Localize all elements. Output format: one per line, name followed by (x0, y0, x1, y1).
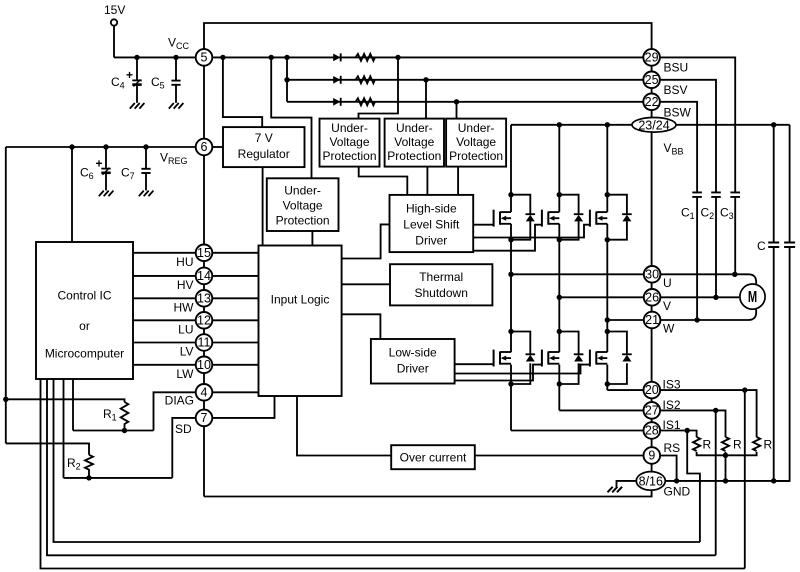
wire VBB rail (511, 124, 632, 126)
wire low-side gate 3 (455, 365, 590, 374)
wire cap C right column (789, 125, 791, 243)
wire high-side gate 1 (473, 224, 493, 226)
box over current (391, 445, 475, 469)
svg-text:SD: SD (175, 422, 192, 436)
wire U into motor (749, 274, 757, 285)
wire cap C left column (773, 125, 775, 243)
svg-text:RS: RS (664, 441, 681, 455)
pin 13 HW (196, 290, 213, 307)
svg-text:Driver: Driver (415, 234, 447, 248)
pin 5 VCC (196, 49, 213, 66)
wire VREG left rail down (5, 147, 7, 443)
node row2 to UVP-B (423, 77, 428, 82)
wire VREG to R1 top (6, 399, 125, 402)
pin 9 RS (644, 447, 661, 464)
wire GND rail (665, 480, 789, 482)
wire sense R bottom row (697, 452, 757, 455)
svg-text:6: 6 (201, 140, 208, 154)
wire input logic to high-side driver (342, 224, 390, 258)
node VCC to UVP (269, 55, 274, 60)
node RS to GND (674, 478, 679, 483)
node W bootstrap C1 (694, 317, 699, 322)
transistor Q4 low-side U MOSFET (494, 350, 511, 367)
wire pin13 to input logic (212, 297, 258, 299)
wire low diode2 top lead (559, 332, 578, 355)
diode D5 freewheel low 2 (574, 354, 584, 361)
ground under C7 (139, 191, 154, 197)
wire diode3 top lead (607, 195, 627, 215)
wire row1 to UVP-A box (359, 57, 399, 118)
transistor Q1 high-side U MOSFET (494, 210, 511, 227)
wire BSU from pin29 to bootstrap cap C3 (660, 57, 735, 192)
node VREG junction C7 (143, 144, 148, 149)
wire low source column 2 to IS2 (558, 365, 560, 411)
transistor Q6 low-side W MOSFET (590, 350, 607, 367)
diode D4 freewheel low 1 (526, 354, 536, 361)
node cap C to GND (771, 478, 776, 483)
resistor R sense 1 (693, 437, 700, 451)
svg-text:Under-: Under- (331, 121, 368, 135)
resistor bootstrap row1 (356, 54, 375, 61)
wire R2 bottom row (64, 477, 173, 479)
wire over current to pin9 RS (475, 455, 644, 457)
svg-text:HU: HU (176, 255, 193, 269)
svg-text:+: + (95, 157, 102, 171)
wire row3 to UVP-C box (456, 102, 458, 119)
node R bottoms to GND (723, 478, 728, 483)
wire high-side drain column 3 (606, 125, 608, 212)
wire pin10 to input logic (212, 364, 258, 366)
diode D3 freewheel high 3 (622, 214, 632, 221)
wire control IC outputs HU (133, 252, 196, 254)
svg-text:7 V: 7 V (255, 131, 273, 145)
wire bootstrap feed down (286, 57, 288, 101)
svg-text:LV: LV (180, 345, 194, 359)
wire pin4 to input logic (212, 391, 258, 393)
node low drain 1 (508, 329, 513, 334)
svg-text:Shutdown: Shutdown (415, 286, 468, 300)
node VCC junction C5 (173, 55, 178, 60)
svg-text:Voltage: Voltage (394, 135, 434, 149)
node diode2 top (557, 192, 562, 197)
wire high-side source column 2 (558, 224, 560, 352)
node low drain 3 (605, 329, 610, 334)
wire pin6 to regulator (212, 146, 223, 148)
pin 11 LV (196, 334, 213, 351)
node IS1 riser (685, 428, 690, 433)
node VCC junction C4 (134, 55, 139, 60)
pin 20 IS3 (644, 382, 661, 399)
capacitor C3 bootstrap (730, 192, 740, 197)
pin 8/16 GND (636, 472, 665, 491)
svg-text:Voltage: Voltage (329, 135, 369, 149)
box input logic (259, 246, 342, 397)
wire bootstrap row 3 (287, 101, 643, 103)
svg-text:Under-: Under- (396, 121, 433, 135)
box under-voltage protection C (BSW) (446, 119, 506, 167)
wire BSW from pin22 to bootstrap cap C1 (660, 102, 697, 192)
wire bootstrap row 2 (287, 79, 643, 81)
svg-text:Level Shift: Level Shift (403, 218, 460, 232)
wire IC bottom edge (204, 490, 652, 496)
ground under C5 (169, 103, 184, 109)
wire IC right edge (651, 66, 653, 72)
node low source 2 (557, 381, 562, 386)
node VREG rail to R1 (3, 397, 8, 402)
wire low diode3 top lead (607, 332, 627, 355)
svg-text:BSV: BSV (664, 83, 688, 97)
wire IC top edge (204, 23, 652, 49)
capacitor C1 bootstrap (692, 192, 702, 197)
box high-side level shift driver (390, 195, 474, 252)
svg-text:26: 26 (645, 290, 659, 304)
wire VREG rail (6, 146, 196, 148)
node row1 to UVP-A (395, 55, 400, 60)
wire control IC outputs LW (133, 364, 196, 366)
pin 27 IS2 (644, 402, 661, 419)
svg-text:IS1: IS1 (663, 418, 681, 432)
svg-text:9: 9 (648, 449, 655, 463)
wire control IC to R1 row riser (72, 379, 74, 431)
pin 28 IS1 (644, 422, 661, 439)
wire IS1 row (511, 430, 644, 432)
svg-text:30: 30 (645, 267, 659, 281)
node V row left (557, 295, 562, 300)
pin 29 BSU (643, 49, 660, 66)
wire control IC outputs LU (133, 319, 196, 321)
transistor Q3 high-side W MOSFET (590, 210, 607, 227)
wire W row (607, 319, 644, 321)
wire pin7 SD to R2 bottom (172, 418, 195, 478)
wire VREG to control IC top (71, 147, 73, 242)
svg-text:Under-: Under- (284, 184, 321, 198)
capacitor C5 (171, 57, 180, 102)
wire low diode2 bottom lead (559, 363, 578, 384)
svg-text:Control IC: Control IC (57, 289, 111, 303)
wire high-side drain column 1 (510, 125, 512, 212)
svg-text:8/16: 8/16 (639, 474, 663, 488)
wire sense R middle to GND rail (725, 452, 727, 481)
box control IC / microcomputer (36, 242, 133, 379)
wire diode1 top lead (511, 195, 530, 215)
svg-text:HW: HW (174, 301, 195, 315)
resistor R1 (DIAG pull-up) (121, 402, 129, 431)
node sense R middle bottom (723, 453, 728, 458)
wire control IC to R2 row riser (63, 379, 65, 478)
svg-text:15: 15 (197, 246, 211, 260)
wire IS2 row (559, 409, 643, 411)
svg-text:LW: LW (176, 367, 194, 381)
wire pin14 to input logic (212, 275, 258, 277)
svg-text:R: R (733, 438, 742, 452)
node diode1 top (508, 192, 513, 197)
wire regulator bottom to input logic (262, 167, 264, 245)
box low-side driver (371, 339, 455, 384)
wire IS1 return rail (54, 379, 700, 542)
pin 23/24 VBB (632, 118, 676, 133)
svg-text:Over current: Over current (400, 451, 467, 465)
wire UVP-A bottom to high-side driver (359, 167, 408, 195)
capacitor C bulk left (768, 243, 779, 248)
svg-text:LU: LU (178, 323, 193, 337)
diode D1 freewheel high 1 (526, 214, 536, 221)
wire IS1 return riser (687, 431, 700, 543)
svg-text:HV: HV (177, 278, 194, 292)
svg-text:Voltage: Voltage (456, 135, 496, 149)
transistor Q2 high-side V MOSFET (542, 210, 559, 227)
resistor R2 (SD pull-up) (85, 455, 93, 478)
wire 15V supply lead (113, 26, 115, 58)
wire VCC feed to under-voltage protection (271, 57, 311, 178)
wire IS2 return riser (715, 410, 717, 555)
svg-text:V: V (663, 299, 671, 313)
node VBB drain2 (557, 122, 562, 127)
svg-text:22: 22 (645, 95, 659, 109)
diode D2 freewheel high 2 (574, 214, 584, 221)
node VBB drain3 (605, 122, 610, 127)
diode bootstrap row1 (333, 53, 341, 61)
wire diode3 bottom lead (607, 221, 627, 240)
wire diode2 top lead (559, 195, 578, 215)
pin 12 LU (196, 312, 213, 329)
wire IS3 return riser (744, 390, 746, 568)
resistor bootstrap row3 (356, 98, 375, 105)
wire U row (511, 273, 644, 275)
pin 7 SD (196, 410, 213, 427)
node source2 (557, 237, 562, 242)
wire W into motor (749, 309, 757, 320)
svg-text:Input Logic: Input Logic (271, 293, 330, 307)
wire IS3 return rail (41, 379, 745, 569)
wire DIAG to R1 bottom (154, 392, 196, 430)
svg-text:IS3: IS3 (663, 378, 681, 392)
wire high-side drain column 2 (558, 125, 560, 212)
motor M (740, 284, 765, 309)
node R2 bottom (86, 475, 91, 480)
wire high-side source column 1 (510, 224, 512, 352)
node W row left (605, 317, 610, 322)
ground symbol at GND pin (608, 487, 623, 493)
svg-text:U: U (663, 276, 672, 290)
wire pin12 to input logic (212, 319, 258, 321)
wire diode2 bottom lead (559, 221, 578, 240)
pin 14 HV (196, 268, 213, 285)
wire low diode3 bottom lead (607, 363, 627, 384)
node diode3 top (605, 192, 610, 197)
capacitor C7 (141, 147, 150, 190)
svg-text:R: R (764, 438, 773, 452)
capacitor C4 (electrolytic) (126, 57, 142, 102)
wire IC left edge (203, 66, 205, 139)
svg-text:or: or (79, 319, 90, 333)
wire IS3 row (607, 389, 643, 391)
wire control IC outputs HW (133, 297, 196, 299)
svg-text:Protection: Protection (387, 149, 441, 163)
diode D6 freewheel low 3 (622, 354, 632, 361)
wire high-side gate 2 (473, 225, 542, 251)
node VCC to regulator (220, 55, 225, 60)
capacitor C bulk right (784, 243, 795, 248)
svg-text:Microcomputer: Microcomputer (45, 347, 124, 361)
ground under C4 (130, 103, 145, 109)
pin 4 DIAG (196, 384, 213, 401)
resistor bootstrap row2 (356, 76, 375, 83)
svg-text:14: 14 (197, 269, 211, 283)
node bootstrap row2 start (284, 77, 289, 82)
svg-text:Driver: Driver (397, 362, 429, 376)
svg-text:Protection: Protection (276, 214, 330, 228)
svg-text:Regulator: Regulator (238, 147, 290, 161)
transistor Q5 low-side V MOSFET (542, 350, 559, 367)
node IS3 riser (742, 387, 747, 392)
svg-text:High-side: High-side (406, 202, 457, 216)
svg-text:W: W (663, 322, 675, 336)
wire pin15 to input logic (212, 252, 258, 254)
svg-text:Protection: Protection (322, 149, 376, 163)
diode bootstrap row3 (333, 98, 341, 106)
node VBB cap C (771, 122, 776, 127)
svg-text:R: R (703, 438, 712, 452)
wire low-side gate 1 (455, 363, 494, 365)
svg-text:11: 11 (198, 336, 211, 350)
box under-voltage protection B (BSV) (385, 119, 444, 167)
box under-voltage protection (VREG) (267, 178, 339, 231)
node VREG to control IC (69, 144, 74, 149)
wire BSV from pin25 to bootstrap cap C2 (660, 80, 716, 192)
wire VCC rail (114, 56, 196, 58)
node low source 1 (508, 381, 513, 386)
svg-text:13: 13 (197, 291, 211, 305)
pin 15 HU (196, 245, 213, 262)
node row3 to UVP-C (454, 99, 459, 104)
wire VREG to R2 top (6, 443, 89, 454)
capacitor C2 bootstrap (711, 192, 721, 197)
node U row left (508, 272, 513, 277)
wire row2 to UVP-B box (425, 80, 427, 119)
ground under C6 (99, 191, 114, 197)
svg-text:GND: GND (664, 485, 691, 499)
svg-text:5: 5 (201, 50, 208, 64)
wire VCC row to pin29 (bootstrap row 1) (212, 56, 643, 58)
svg-text:Thermal: Thermal (419, 270, 463, 284)
svg-text:BSW: BSW (664, 106, 692, 120)
pin 26 V (644, 289, 661, 306)
wire control IC outputs HV (133, 275, 196, 277)
svg-text:21: 21 (645, 313, 659, 327)
wire GND pin lead to ground symbol (617, 481, 637, 487)
pin 10 LW (196, 357, 213, 374)
svg-text:25: 25 (645, 73, 659, 87)
wire VCC feed to 7V regulator (223, 57, 262, 127)
wire high-side source column 3 (606, 224, 608, 352)
node V bootstrap C2 (713, 295, 718, 300)
resistor R sense 3 (753, 437, 760, 451)
wire UVP-C bottom to high-side driver (457, 167, 459, 195)
svg-text:C: C (757, 239, 766, 253)
svg-text:M: M (748, 288, 757, 305)
capacitor C6 (electrolytic) (95, 147, 110, 190)
node source3 (605, 237, 610, 242)
resistor R sense 2 (722, 437, 729, 451)
wire UVP-B bottom to high-side driver (426, 167, 428, 195)
node low source 3 (605, 381, 610, 386)
node U bootstrap C3 (732, 272, 737, 277)
wire low diode1 top lead (511, 332, 530, 355)
node low drain 2 (557, 329, 562, 334)
pin 21 W (644, 312, 661, 329)
svg-text:29: 29 (645, 50, 659, 64)
svg-text:Low-side: Low-side (389, 346, 437, 360)
wire pin7 to input logic bottom (212, 396, 274, 418)
wire low source column 1 to IS1 (510, 365, 512, 431)
svg-text:12: 12 (197, 313, 211, 327)
svg-text:4: 4 (201, 385, 208, 399)
wire control IC outputs LV (133, 342, 196, 344)
node VREG junction C6 (103, 144, 108, 149)
wire low diode1 bottom lead (511, 363, 530, 384)
wire UVP bottom to input logic (311, 231, 313, 246)
svg-text:10: 10 (197, 358, 211, 372)
svg-text:28: 28 (645, 424, 659, 438)
svg-text:IS2: IS2 (663, 398, 681, 412)
svg-text:27: 27 (645, 403, 659, 417)
svg-text:7: 7 (201, 411, 208, 425)
wire R1 bottom row (73, 430, 154, 432)
wire input logic to over current (297, 396, 391, 456)
node IS2 riser (713, 408, 718, 413)
svg-text:BSU: BSU (664, 61, 689, 75)
wire V row (559, 296, 644, 298)
svg-text:Voltage: Voltage (283, 199, 323, 213)
pin 25 BSV (643, 72, 660, 89)
pin 6 VREG (196, 139, 213, 156)
pin 22 BSW (643, 94, 660, 111)
svg-text:23/24: 23/24 (638, 118, 669, 132)
wire pin11 to input logic (212, 342, 258, 344)
node VCC to bootstrap rows (284, 55, 289, 60)
wire input logic to thermal shutdown (342, 283, 390, 285)
wire low-side gate 2 (455, 365, 542, 381)
terminal 15V (111, 19, 117, 25)
svg-text:Protection: Protection (449, 149, 503, 163)
pin 30 U (644, 266, 661, 283)
svg-text:20: 20 (645, 383, 659, 397)
box thermal shutdown (390, 264, 492, 305)
box under-voltage protection A (BSU) (320, 119, 380, 167)
wire high-side gate 3 (473, 225, 590, 238)
node source1 (508, 237, 513, 242)
diode bootstrap row2 (333, 76, 341, 84)
svg-text:DIAG: DIAG (165, 394, 194, 408)
node R1 bottom (122, 428, 127, 433)
box 7V regulator U-REG (223, 127, 305, 167)
wire low source column 3 to IS3 (606, 365, 608, 391)
svg-text:15V: 15V (104, 3, 125, 17)
wire input logic to low-side driver (342, 314, 381, 339)
svg-text:+: + (126, 68, 133, 82)
wire diode1 bottom lead (511, 221, 530, 240)
wire pin9 RS to GND rail (660, 456, 677, 481)
svg-text:Under-: Under- (458, 121, 495, 135)
wire IS2 return rail (47, 379, 716, 555)
